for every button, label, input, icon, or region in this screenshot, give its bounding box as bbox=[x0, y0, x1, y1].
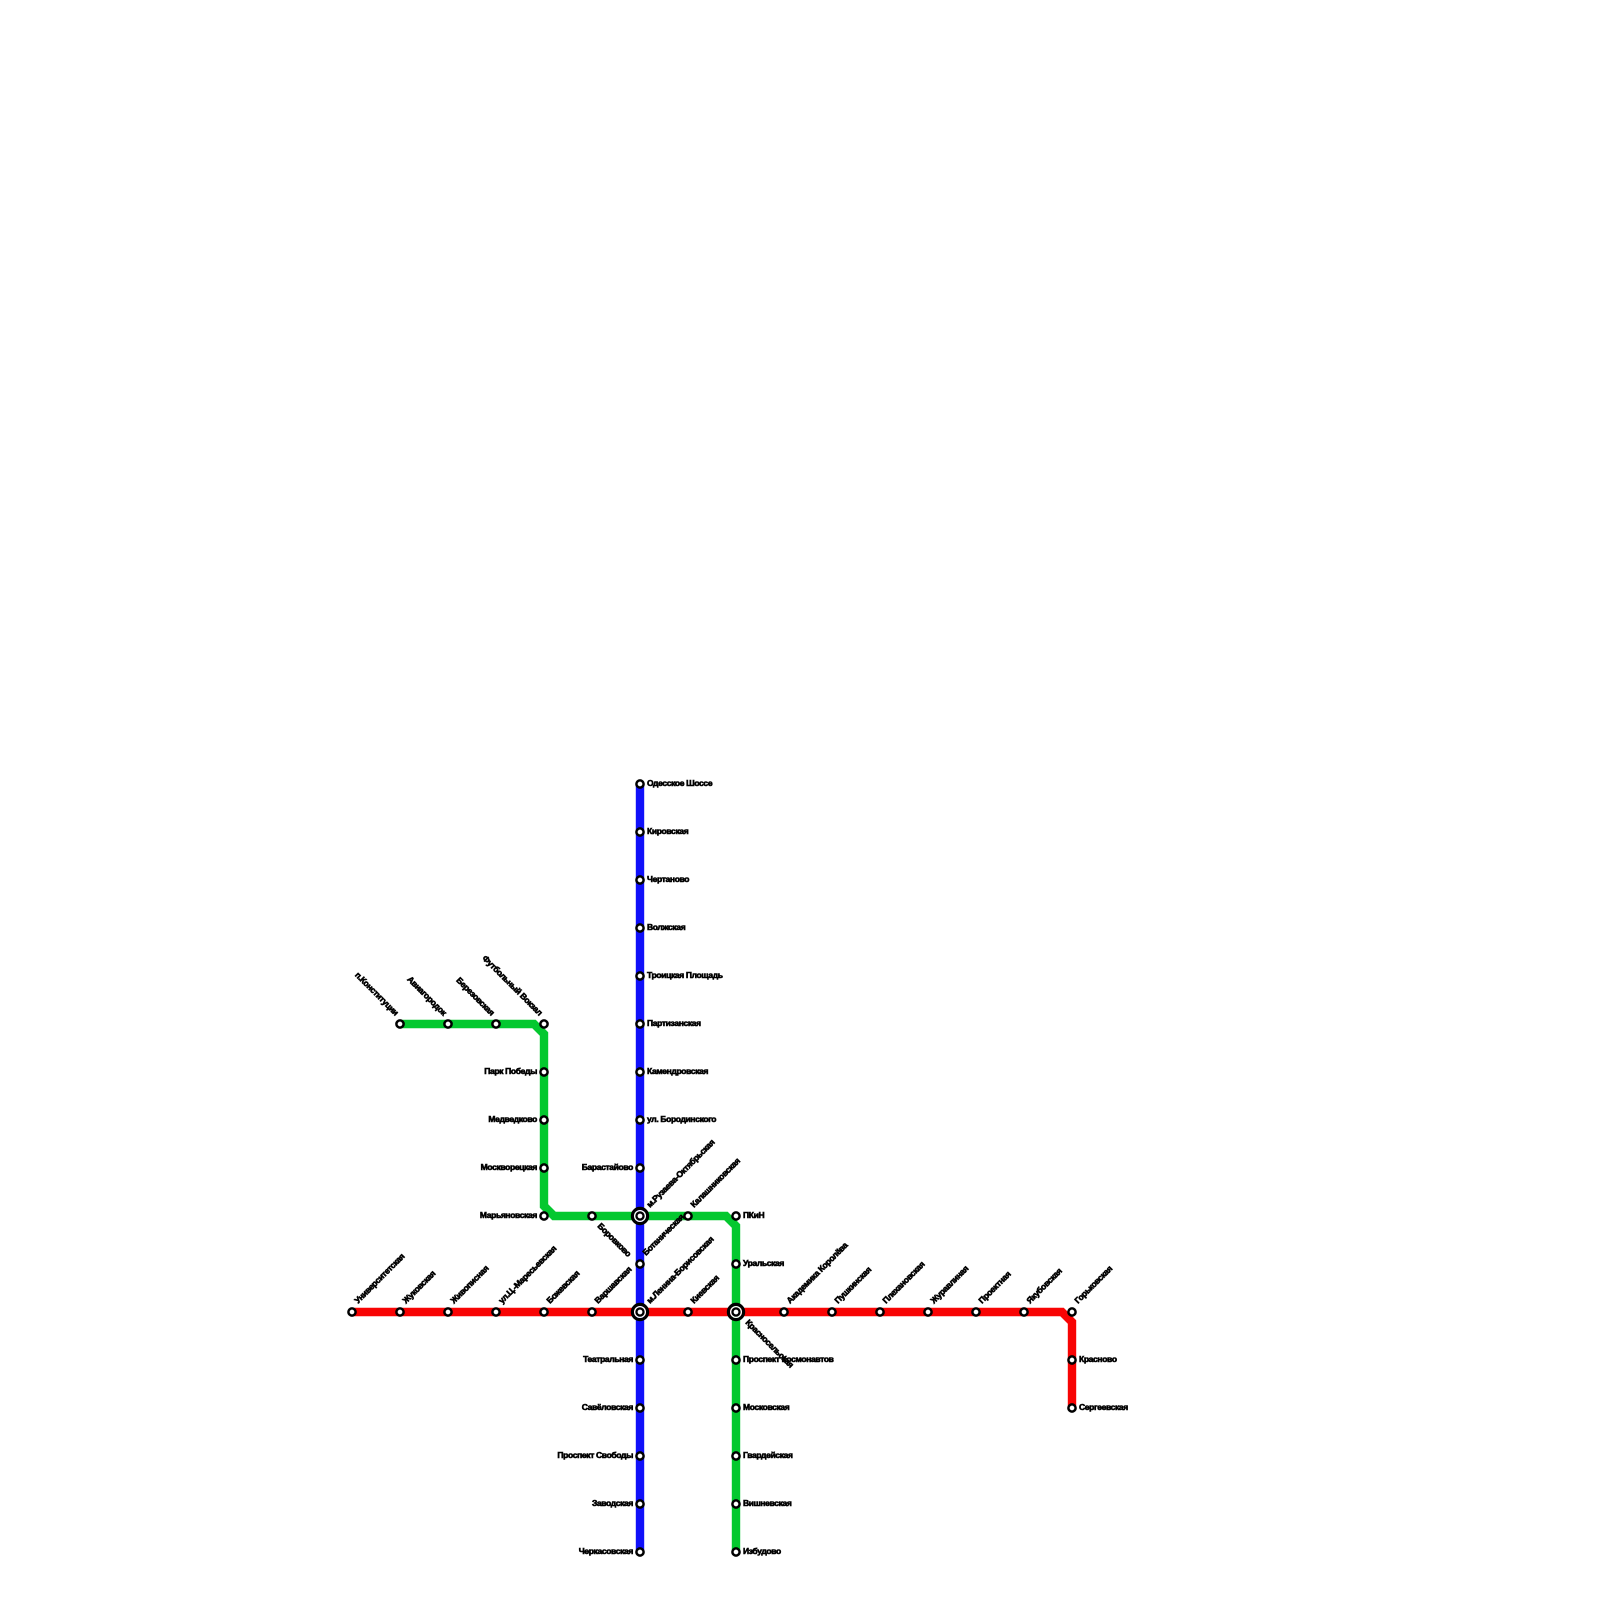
svg-text:Кировская: Кировская bbox=[647, 826, 689, 836]
svg-text:Партизанская: Партизанская bbox=[647, 1018, 701, 1028]
svg-text:Волжская: Волжская bbox=[647, 922, 686, 932]
svg-text:Гвардейская: Гвардейская bbox=[743, 1450, 793, 1460]
svg-text:Одесское Шоссе: Одесское Шоссе bbox=[647, 778, 713, 788]
svg-text:Плехановская: Плехановская bbox=[880, 1259, 926, 1305]
svg-text:Чертаново: Чертаново bbox=[647, 874, 689, 884]
svg-text:Боровково: Боровково bbox=[596, 1221, 634, 1259]
svg-text:Проспект Космонавтов: Проспект Космонавтов bbox=[743, 1354, 834, 1364]
svg-text:Жуковская: Жуковская bbox=[400, 1268, 438, 1306]
svg-text:Уральская: Уральская bbox=[743, 1258, 784, 1268]
svg-text:Березовская: Березовская bbox=[454, 975, 497, 1018]
svg-text:Проектная: Проектная bbox=[976, 1269, 1013, 1306]
svg-text:п.Конституции: п.Конституции bbox=[353, 970, 401, 1018]
svg-text:Журавлиная: Журавлиная bbox=[928, 1263, 971, 1306]
svg-text:Заводская: Заводская bbox=[592, 1498, 633, 1508]
svg-text:ул. Бородинского: ул. Бородинского bbox=[647, 1114, 716, 1124]
svg-text:Избудово: Избудово bbox=[743, 1546, 781, 1556]
svg-text:Божевская: Божевская bbox=[544, 1268, 581, 1305]
svg-text:Сергеевская: Сергеевская bbox=[1079, 1402, 1128, 1412]
svg-text:Савёловская: Савёловская bbox=[582, 1402, 634, 1412]
svg-text:ПКиН: ПКиН bbox=[743, 1210, 764, 1220]
svg-text:Варшавская: Варшавская bbox=[592, 1264, 633, 1305]
svg-text:Марьяновская: Марьяновская bbox=[480, 1210, 537, 1220]
svg-text:Проспект Свободы: Проспект Свободы bbox=[557, 1450, 633, 1460]
svg-text:Якубовская: Якубовская bbox=[1024, 1266, 1064, 1306]
svg-text:Киевская: Киевская bbox=[688, 1273, 721, 1306]
svg-text:Горьковская: Горьковская bbox=[1072, 1263, 1114, 1305]
svg-text:Живописная: Живописная bbox=[448, 1263, 491, 1306]
svg-text:Москворецкая: Москворецкая bbox=[481, 1162, 538, 1172]
svg-text:Авиагородок: Авиагородок bbox=[405, 974, 449, 1018]
svg-text:Московская: Московская bbox=[743, 1402, 790, 1412]
svg-text:Троицкая Площадь: Троицкая Площадь bbox=[647, 970, 723, 980]
svg-text:Вишневская: Вишневская bbox=[743, 1498, 792, 1508]
svg-text:Университетская: Университетская bbox=[352, 1251, 406, 1305]
svg-text:Красново: Красново bbox=[1079, 1354, 1117, 1364]
svg-text:Пушкинская: Пушкинская bbox=[832, 1264, 873, 1305]
svg-text:Театральная: Театральная bbox=[583, 1354, 633, 1364]
svg-text:Камендровская: Камендровская bbox=[647, 1066, 708, 1076]
svg-text:Черкасовская: Черкасовская bbox=[579, 1546, 634, 1556]
svg-text:Медведково: Медведково bbox=[488, 1114, 537, 1124]
svg-text:Барастайово: Барастайово bbox=[582, 1162, 633, 1172]
svg-text:Парк Победы: Парк Победы bbox=[484, 1066, 537, 1076]
